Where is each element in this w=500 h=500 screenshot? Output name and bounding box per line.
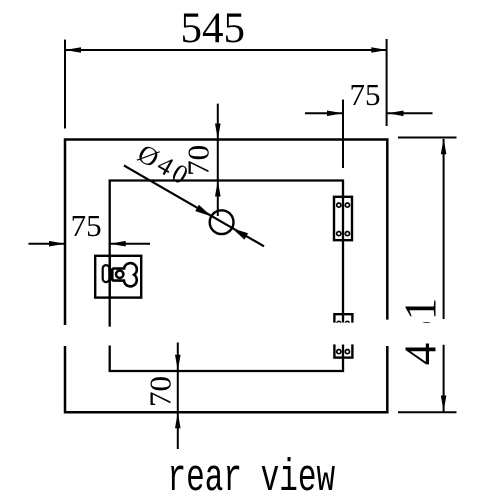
dim 451 extension tick bottom [398,411,457,413]
svg-text:75: 75 [350,77,381,112]
dim 451 extension tick top [398,137,457,139]
cable hole circle [210,210,234,234]
keyhole fitting square plate [95,256,141,298]
dim 451 line with arrows [441,138,447,412]
erase band over bottom hinge [330,323,358,345]
outer panel outline [65,140,387,413]
dim 75 top-right extension line [342,100,344,168]
svg-text:545: 545 [180,5,245,52]
dim 75 top-right line with arrows [305,111,433,117]
keyhole fitting bone outline [112,263,137,286]
keyhole fitting left stadium [103,265,110,282]
dim 75 left line with arrows [29,241,151,247]
dim 545 extension line right [386,39,388,126]
keyhole fitting screw circle [116,271,123,278]
keyhole fitting black slot [109,269,113,281]
inner edge re-drawn through keyhole plate [109,256,111,298]
dim 70 bottom line with arrows [175,343,181,450]
inner door outline [110,181,343,372]
dim 545 line with arrows [65,47,387,53]
hinge top screws [337,203,350,236]
hinge bottom screws [337,321,350,353]
hinge top plate [334,197,352,240]
dim 545 extension line left [64,40,66,129]
leader line for hole diameter [124,166,264,247]
svg-text:75: 75 [71,208,102,243]
svg-text:70: 70 [143,376,178,407]
erase band over digit 5 of 451 [402,323,441,343]
dim 70 top line with arrows [215,104,221,216]
hinge bottom plate [334,314,352,357]
svg-text:rear view: rear view [167,453,335,500]
